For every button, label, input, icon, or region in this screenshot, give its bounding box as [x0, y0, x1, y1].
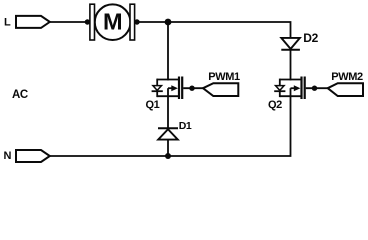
motor M1: [90, 4, 135, 40]
junction motor right: [134, 19, 139, 24]
label N: [4, 150, 12, 162]
label Q2: [268, 99, 282, 111]
wire Q1 source to D1: [167, 96, 169, 128]
label L: [4, 17, 11, 29]
port PWM2: [328, 83, 363, 96]
junction node A (motor to Q1 branch): [165, 19, 172, 26]
svg-text:PWM1: PWM1: [208, 71, 240, 83]
port PWM1: [203, 83, 238, 96]
svg-text:L: L: [4, 17, 11, 29]
port L: [16, 16, 50, 28]
label PWM2: [331, 71, 363, 83]
svg-text:Q1: Q1: [146, 99, 160, 111]
wire top rail: [135, 22, 291, 38]
wire L tag to motor: [50, 21, 90, 23]
svg-text:D1: D1: [179, 120, 192, 132]
diode D1: [158, 128, 178, 139]
label AC: [12, 89, 28, 101]
svg-text:PWM2: PWM2: [331, 71, 363, 83]
svg-text:M: M: [103, 9, 122, 35]
junction motor left: [85, 19, 90, 24]
transistor Q1: [152, 77, 203, 100]
junction Q2 gate: [312, 86, 317, 91]
junction Q1 gate: [189, 86, 194, 91]
junction N rail at D1: [165, 153, 171, 159]
wire D1 to N rail: [167, 140, 169, 156]
wire bottom rail: [50, 96, 291, 156]
wire node A down to Q1 drain: [167, 22, 169, 80]
label Q1: [146, 99, 160, 111]
svg-text:AC: AC: [12, 89, 28, 101]
label PWM1: [208, 71, 240, 83]
transistor Q2: [274, 77, 328, 100]
label D1: [179, 120, 192, 132]
svg-text:D2: D2: [303, 31, 318, 45]
port N: [16, 150, 50, 162]
svg-text:Q2: Q2: [268, 99, 282, 111]
wire D2 to Q2 drain: [290, 50, 292, 81]
svg-text:N: N: [4, 150, 12, 162]
label D2: [303, 31, 318, 45]
diode D2: [281, 38, 300, 50]
